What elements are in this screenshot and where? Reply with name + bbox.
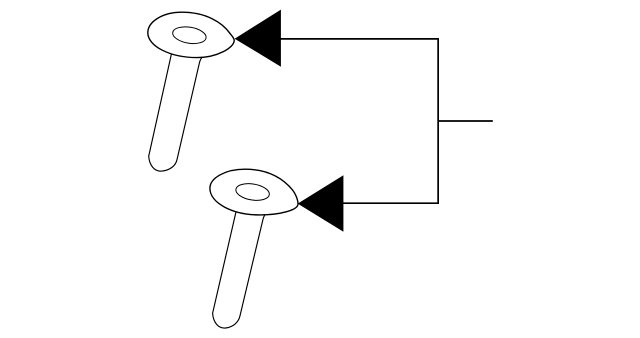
bolt 1 head top: [171, 25, 207, 46]
arrow 2 (points at bolt 2): [298, 175, 344, 232]
bolt 1 shank: [149, 51, 204, 172]
bolt 1 (upper flange bolt): [148, 12, 234, 171]
bolt 2 head flange: [210, 169, 298, 215]
bolt 2 shank: [213, 208, 268, 329]
leader stub wire: [438, 120, 493, 122]
arrow 1 (points at bolt 1): [235, 10, 281, 67]
bolt 2 (lower flange bolt): [210, 169, 298, 328]
bolt 2 head top: [235, 181, 271, 202]
callout bracket wire: [279, 39, 438, 203]
bolt 1 head flange: [148, 12, 234, 57]
